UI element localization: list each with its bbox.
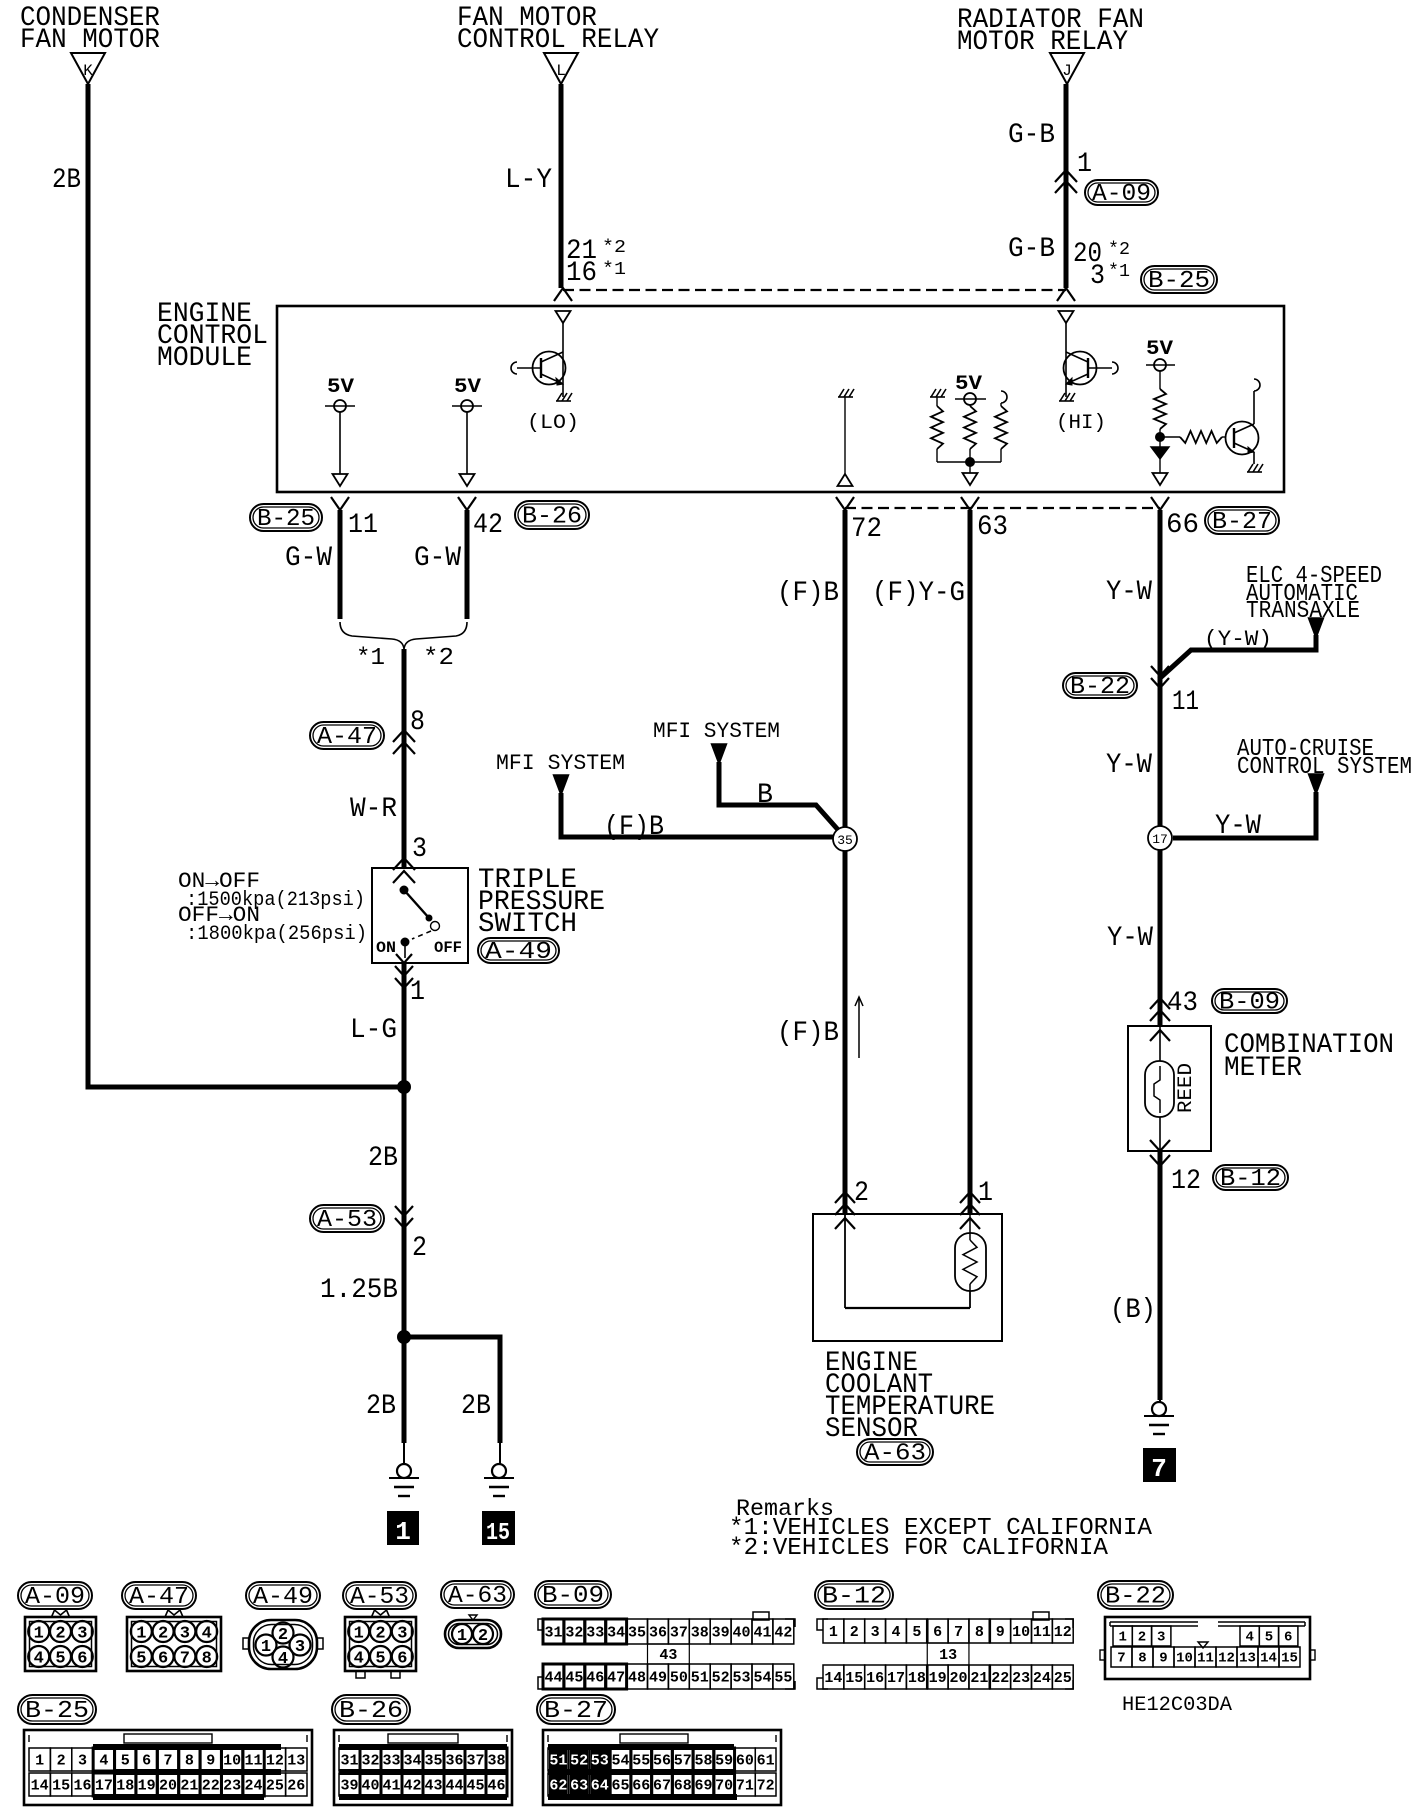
svg-text:(F)B: (F)B — [777, 1018, 839, 1049]
svg-text:4: 4 — [1245, 1630, 1253, 1646]
svg-text:B-12: B-12 — [822, 1584, 886, 1611]
svg-text:*1: *1 — [1108, 262, 1130, 282]
svg-text:W-R: W-R — [350, 794, 397, 825]
svg-text:66: 66 — [632, 1777, 650, 1794]
svg-text:6: 6 — [77, 1650, 87, 1669]
svg-text:42: 42 — [473, 510, 503, 541]
svg-text:67: 67 — [653, 1777, 671, 1794]
svg-text:(Y-W): (Y-W) — [1204, 627, 1272, 652]
svg-text:(F)Y-G: (F)Y-G — [872, 578, 965, 609]
svg-text:58: 58 — [694, 1752, 712, 1769]
svg-text:52: 52 — [570, 1753, 588, 1770]
svg-text:G-B: G-B — [1008, 234, 1055, 265]
svg-text:8: 8 — [185, 1752, 194, 1769]
svg-text:13: 13 — [1239, 1651, 1256, 1667]
svg-text:35: 35 — [424, 1752, 442, 1769]
svg-text:FAN MOTOR: FAN MOTOR — [20, 25, 160, 56]
svg-text:22: 22 — [991, 1670, 1009, 1687]
svg-text:46: 46 — [487, 1777, 505, 1794]
svg-text:35: 35 — [628, 1624, 646, 1641]
svg-text:L-G: L-G — [350, 1015, 397, 1046]
svg-text:4: 4 — [891, 1624, 900, 1641]
svg-text:20: 20 — [950, 1670, 968, 1687]
svg-text:24: 24 — [1033, 1670, 1051, 1687]
svg-text:1: 1 — [395, 1517, 411, 1547]
svg-text:5: 5 — [912, 1624, 921, 1641]
svg-text:REED: REED — [1175, 1063, 1198, 1113]
svg-text:Y-W: Y-W — [1107, 923, 1153, 954]
svg-text:21: 21 — [180, 1777, 198, 1794]
svg-text:51: 51 — [549, 1753, 567, 1770]
svg-text:9: 9 — [996, 1624, 1005, 1641]
svg-text:35: 35 — [837, 833, 853, 848]
svg-text:12: 12 — [266, 1752, 284, 1769]
svg-text:B-27: B-27 — [1212, 509, 1272, 536]
svg-text:A-47: A-47 — [317, 724, 377, 751]
svg-text:1: 1 — [457, 1627, 467, 1646]
svg-text:2B: 2B — [52, 165, 81, 196]
svg-text:19: 19 — [138, 1777, 156, 1794]
svg-text:39: 39 — [712, 1624, 730, 1641]
svg-text:40: 40 — [733, 1624, 751, 1641]
svg-text:Y-W: Y-W — [1215, 811, 1261, 842]
svg-text:B-12: B-12 — [1220, 1166, 1281, 1193]
svg-text:3: 3 — [1090, 261, 1105, 292]
svg-text:15: 15 — [486, 1520, 510, 1547]
svg-text:A-53: A-53 — [350, 1584, 409, 1611]
svg-text:2: 2 — [375, 1625, 385, 1644]
svg-text:10: 10 — [223, 1752, 241, 1769]
svg-text:54: 54 — [612, 1752, 630, 1769]
svg-text:3: 3 — [397, 1625, 407, 1644]
svg-text:11: 11 — [348, 510, 378, 541]
svg-text:*2:VEHICLES FOR CALIFORNIA: *2:VEHICLES FOR CALIFORNIA — [729, 1535, 1109, 1562]
svg-text:(F)B: (F)B — [777, 578, 839, 609]
svg-text:11: 11 — [1172, 687, 1199, 718]
svg-text:16: 16 — [73, 1777, 91, 1794]
svg-text:37: 37 — [670, 1624, 688, 1641]
svg-text:8: 8 — [202, 1650, 212, 1669]
svg-text:4: 4 — [99, 1752, 108, 1769]
svg-text:8: 8 — [1138, 1651, 1146, 1667]
svg-text:5V: 5V — [454, 376, 481, 399]
svg-text:36: 36 — [649, 1624, 667, 1641]
svg-text:1: 1 — [35, 1752, 44, 1769]
svg-text:18: 18 — [908, 1670, 926, 1687]
svg-text:K: K — [83, 62, 93, 80]
svg-text:*2: *2 — [602, 238, 626, 258]
svg-text:11: 11 — [1197, 1651, 1214, 1667]
svg-text:J: J — [1062, 62, 1072, 80]
svg-text:18: 18 — [116, 1777, 134, 1794]
svg-text:4: 4 — [34, 1650, 44, 1669]
svg-text:19: 19 — [929, 1670, 947, 1687]
svg-text:7: 7 — [180, 1650, 190, 1669]
svg-text:3: 3 — [295, 1638, 305, 1657]
svg-text:8: 8 — [975, 1624, 984, 1641]
svg-text:*2: *2 — [423, 645, 454, 672]
svg-text:3: 3 — [78, 1752, 87, 1769]
svg-text:2: 2 — [158, 1625, 168, 1644]
svg-text:16: 16 — [866, 1670, 884, 1687]
svg-text:5V: 5V — [327, 376, 354, 399]
svg-text:43: 43 — [1167, 988, 1198, 1019]
svg-text:12: 12 — [1171, 1166, 1201, 1197]
svg-text:45: 45 — [565, 1669, 583, 1686]
svg-text:*1: *1 — [356, 645, 385, 672]
svg-text:5V: 5V — [1146, 338, 1173, 361]
svg-text:(B): (B) — [1110, 1295, 1156, 1326]
svg-text:B-25: B-25 — [257, 506, 315, 533]
svg-text:5: 5 — [121, 1752, 130, 1769]
svg-text:14: 14 — [31, 1777, 49, 1794]
svg-text:10: 10 — [1176, 1651, 1193, 1667]
svg-text:71: 71 — [736, 1777, 754, 1794]
svg-text:METER: METER — [1224, 1053, 1302, 1084]
svg-text:69: 69 — [694, 1777, 712, 1794]
svg-text:48: 48 — [628, 1669, 646, 1686]
svg-text:14: 14 — [1260, 1651, 1277, 1667]
svg-text:12: 12 — [1054, 1624, 1072, 1641]
svg-text:9: 9 — [206, 1752, 215, 1769]
svg-text:6: 6 — [158, 1650, 168, 1669]
svg-text:23: 23 — [1012, 1670, 1030, 1687]
svg-text:A-63: A-63 — [864, 1441, 926, 1468]
svg-text:2: 2 — [850, 1624, 859, 1641]
svg-text:(HI): (HI) — [1056, 412, 1106, 435]
svg-text:40: 40 — [361, 1777, 379, 1794]
svg-text:17: 17 — [1152, 832, 1168, 847]
svg-text:A-49: A-49 — [253, 1584, 313, 1611]
svg-text:2B: 2B — [461, 1391, 491, 1422]
svg-text:17: 17 — [887, 1670, 905, 1687]
svg-text:4: 4 — [202, 1625, 212, 1644]
svg-text:A-63: A-63 — [448, 1583, 507, 1610]
svg-text:HE12C03DA: HE12C03DA — [1122, 1694, 1232, 1717]
svg-text:A-53: A-53 — [317, 1207, 377, 1234]
svg-text:G-W: G-W — [414, 543, 461, 574]
svg-text:SWITCH: SWITCH — [478, 909, 577, 940]
svg-text:23: 23 — [223, 1777, 241, 1794]
svg-text:49: 49 — [649, 1669, 667, 1686]
svg-text:22: 22 — [202, 1777, 220, 1794]
svg-text:3: 3 — [871, 1624, 880, 1641]
svg-text:50: 50 — [670, 1669, 688, 1686]
svg-text:12: 12 — [1218, 1651, 1235, 1667]
svg-text:25: 25 — [1054, 1670, 1072, 1687]
svg-text:B-25: B-25 — [25, 1698, 89, 1725]
svg-text:2: 2 — [1138, 1630, 1146, 1646]
svg-text:55: 55 — [774, 1669, 792, 1686]
svg-text:B-09: B-09 — [1219, 990, 1280, 1017]
svg-text:L: L — [556, 62, 566, 80]
svg-text:26: 26 — [287, 1777, 305, 1794]
svg-text:15: 15 — [845, 1670, 863, 1687]
svg-text:34: 34 — [403, 1752, 421, 1769]
svg-text:60: 60 — [736, 1752, 754, 1769]
svg-text:1: 1 — [261, 1638, 271, 1657]
svg-text:A-47: A-47 — [129, 1584, 189, 1611]
svg-text:MODULE: MODULE — [157, 343, 252, 374]
svg-text:5: 5 — [55, 1650, 65, 1669]
svg-text:2: 2 — [478, 1627, 488, 1646]
svg-text:6: 6 — [397, 1650, 407, 1669]
svg-text:63: 63 — [570, 1778, 588, 1795]
svg-text:B-26: B-26 — [522, 504, 582, 531]
svg-text:MFI SYSTEM: MFI SYSTEM — [653, 719, 780, 744]
svg-text:43: 43 — [659, 1647, 677, 1664]
svg-text:66: 66 — [1166, 510, 1199, 541]
svg-text:24: 24 — [245, 1777, 263, 1794]
svg-text:42: 42 — [774, 1624, 792, 1641]
svg-text:47: 47 — [607, 1669, 625, 1686]
svg-text:1: 1 — [978, 1178, 993, 1209]
svg-text:B-25: B-25 — [1148, 268, 1210, 295]
svg-text:63: 63 — [977, 512, 1008, 543]
svg-text::1800kpa(256psi): :1800kpa(256psi) — [186, 923, 367, 946]
svg-text:34: 34 — [607, 1624, 625, 1641]
svg-text:68: 68 — [674, 1777, 692, 1794]
svg-text:(LO): (LO) — [527, 412, 579, 435]
svg-text:6: 6 — [1284, 1630, 1292, 1646]
svg-text:1: 1 — [136, 1625, 146, 1644]
svg-text:1.25B: 1.25B — [320, 1275, 398, 1306]
svg-text:B-22: B-22 — [1105, 1584, 1166, 1611]
svg-text:B: B — [757, 780, 773, 811]
svg-text:59: 59 — [715, 1752, 733, 1769]
svg-text:61: 61 — [757, 1752, 775, 1769]
svg-text:32: 32 — [361, 1752, 379, 1769]
svg-text:33: 33 — [586, 1624, 604, 1641]
svg-text:TRANSAXLE: TRANSAXLE — [1246, 598, 1360, 625]
svg-text:6: 6 — [933, 1624, 942, 1641]
svg-text:4: 4 — [354, 1650, 364, 1669]
svg-text:41: 41 — [753, 1624, 771, 1641]
svg-text:13: 13 — [287, 1752, 305, 1769]
svg-text:B-22: B-22 — [1070, 674, 1130, 701]
svg-text:33: 33 — [382, 1752, 400, 1769]
svg-text:31: 31 — [340, 1752, 358, 1769]
svg-text:11: 11 — [1033, 1624, 1051, 1641]
svg-text:53: 53 — [733, 1669, 751, 1686]
svg-text:25: 25 — [266, 1777, 284, 1794]
svg-text:Y-W: Y-W — [1106, 750, 1152, 781]
svg-text:A-09: A-09 — [25, 1584, 85, 1611]
svg-text:3: 3 — [77, 1625, 87, 1644]
svg-text:A-49: A-49 — [485, 939, 552, 966]
svg-text:2: 2 — [854, 1178, 869, 1209]
svg-text:2: 2 — [278, 1626, 288, 1645]
svg-text:1: 1 — [1118, 1630, 1126, 1646]
svg-text:5: 5 — [375, 1650, 385, 1669]
svg-text:2: 2 — [57, 1752, 66, 1769]
svg-text:ON: ON — [376, 939, 396, 957]
svg-text:32: 32 — [565, 1624, 583, 1641]
svg-text:2: 2 — [412, 1233, 427, 1264]
svg-text:7: 7 — [1117, 1651, 1125, 1667]
svg-text:MOTOR RELAY: MOTOR RELAY — [957, 27, 1128, 58]
svg-text:3: 3 — [180, 1625, 190, 1644]
svg-text:5: 5 — [1265, 1630, 1273, 1646]
svg-text:55: 55 — [632, 1752, 650, 1769]
svg-text:1: 1 — [829, 1624, 838, 1641]
svg-text:2B: 2B — [368, 1143, 398, 1174]
svg-text:CONTROL SYSTEM: CONTROL SYSTEM — [1237, 754, 1412, 781]
svg-text:56: 56 — [653, 1752, 671, 1769]
svg-text:21: 21 — [970, 1670, 988, 1687]
svg-text:7: 7 — [163, 1752, 172, 1769]
svg-text:38: 38 — [691, 1624, 709, 1641]
svg-text:37: 37 — [466, 1752, 484, 1769]
svg-text:9: 9 — [1159, 1651, 1167, 1667]
svg-text:17: 17 — [95, 1777, 113, 1794]
svg-text:*2: *2 — [1108, 240, 1130, 260]
svg-text:44: 44 — [544, 1669, 562, 1686]
svg-text:6: 6 — [142, 1752, 151, 1769]
svg-text:3: 3 — [412, 834, 427, 865]
svg-text:53: 53 — [591, 1753, 609, 1770]
svg-text:2: 2 — [55, 1625, 65, 1644]
svg-text:*1: *1 — [602, 260, 626, 280]
svg-text:4: 4 — [278, 1650, 288, 1669]
svg-text:G-B: G-B — [1008, 120, 1055, 151]
svg-text:B-09: B-09 — [542, 1583, 604, 1610]
svg-text:52: 52 — [712, 1669, 730, 1686]
svg-text:L-Y: L-Y — [505, 165, 552, 196]
svg-text:38: 38 — [487, 1752, 505, 1769]
svg-text:39: 39 — [340, 1777, 358, 1794]
svg-text:10: 10 — [1012, 1624, 1030, 1641]
svg-text:OFF: OFF — [434, 939, 462, 957]
svg-text:1: 1 — [354, 1625, 364, 1644]
svg-text:51: 51 — [691, 1669, 709, 1686]
svg-text:13: 13 — [939, 1647, 957, 1664]
svg-text:7: 7 — [954, 1624, 963, 1641]
svg-text:MFI SYSTEM: MFI SYSTEM — [496, 751, 625, 776]
svg-text:41: 41 — [382, 1777, 400, 1794]
svg-text:1: 1 — [1077, 149, 1092, 180]
svg-text:54: 54 — [753, 1669, 771, 1686]
svg-text:65: 65 — [612, 1777, 630, 1794]
svg-text:7: 7 — [1151, 1454, 1167, 1484]
svg-text:11: 11 — [245, 1752, 263, 1769]
svg-text:36: 36 — [445, 1752, 463, 1769]
svg-text:14: 14 — [824, 1670, 842, 1687]
svg-text:43: 43 — [424, 1777, 442, 1794]
svg-text:45: 45 — [466, 1777, 484, 1794]
svg-text:CONTROL RELAY: CONTROL RELAY — [457, 25, 659, 56]
svg-text:70: 70 — [715, 1777, 733, 1794]
svg-text:B-26: B-26 — [339, 1698, 403, 1725]
svg-text:Y-W: Y-W — [1106, 577, 1152, 608]
svg-text:3: 3 — [1157, 1630, 1165, 1646]
svg-text:72: 72 — [851, 514, 882, 545]
svg-text:46: 46 — [586, 1669, 604, 1686]
svg-text:44: 44 — [445, 1777, 463, 1794]
svg-text:2B: 2B — [366, 1391, 396, 1422]
svg-text:31: 31 — [544, 1624, 562, 1641]
svg-text:72: 72 — [757, 1777, 775, 1794]
svg-text:G-W: G-W — [285, 543, 332, 574]
svg-text:20: 20 — [159, 1777, 177, 1794]
svg-text:5: 5 — [136, 1650, 146, 1669]
svg-text:A-09: A-09 — [1092, 181, 1151, 208]
svg-text:1: 1 — [410, 977, 425, 1008]
svg-text:15: 15 — [52, 1777, 70, 1794]
svg-text:16: 16 — [566, 258, 597, 289]
svg-text:8: 8 — [410, 707, 425, 738]
svg-text:B-27: B-27 — [544, 1698, 608, 1725]
svg-text:1: 1 — [34, 1625, 44, 1644]
svg-text:62: 62 — [549, 1778, 567, 1795]
svg-text:(F)B: (F)B — [604, 812, 664, 843]
svg-text:64: 64 — [591, 1778, 609, 1795]
svg-text:42: 42 — [403, 1777, 421, 1794]
svg-text:57: 57 — [674, 1752, 692, 1769]
svg-text:15: 15 — [1281, 1651, 1298, 1667]
